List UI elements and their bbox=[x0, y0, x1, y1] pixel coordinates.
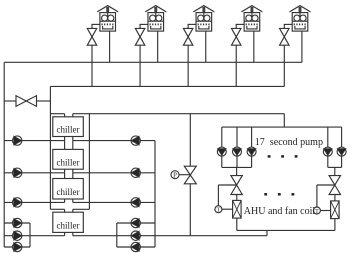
svg-text:T: T bbox=[217, 208, 221, 214]
svg-text:P: P bbox=[173, 172, 177, 179]
svg-text:chiller: chiller bbox=[57, 125, 80, 135]
svg-text:chiller: chiller bbox=[57, 187, 80, 197]
svg-text:chiller: chiller bbox=[57, 221, 80, 231]
svg-text:chiller: chiller bbox=[57, 157, 80, 167]
svg-text:17: 17 bbox=[255, 137, 265, 148]
svg-text:AHU and fan coil: AHU and fan coil bbox=[244, 206, 316, 217]
svg-text:T: T bbox=[315, 209, 319, 215]
svg-text:second pump: second pump bbox=[270, 137, 323, 148]
